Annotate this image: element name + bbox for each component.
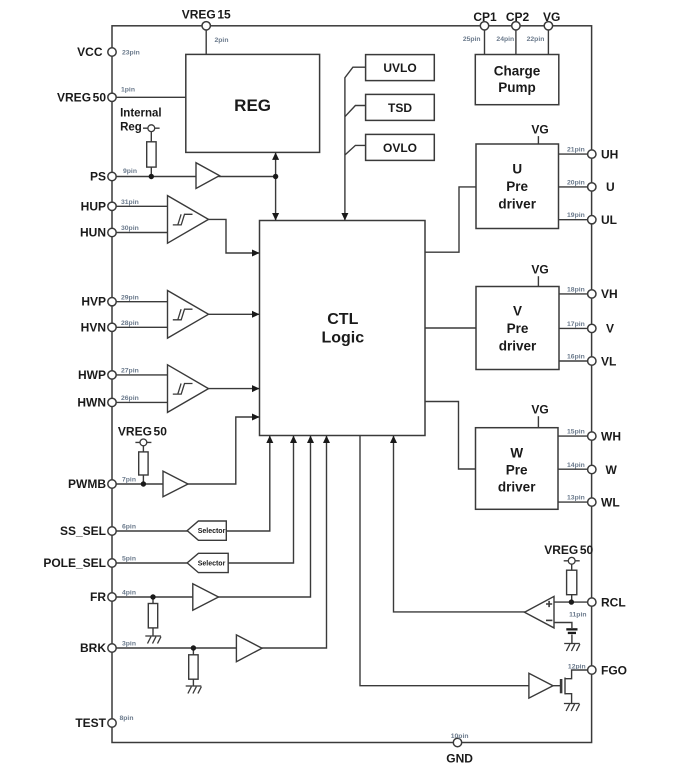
svg-text:POLE_SEL: POLE_SEL — [43, 556, 106, 570]
svg-text:VH: VH — [601, 287, 618, 301]
svg-text:19pin: 19pin — [567, 212, 585, 219]
svg-text:VCC: VCC — [77, 45, 103, 59]
svg-text:Pump: Pump — [498, 80, 536, 95]
svg-text:HUN: HUN — [80, 226, 106, 240]
svg-text:26pin: 26pin — [121, 395, 139, 402]
svg-text:FR: FR — [90, 590, 106, 604]
svg-text:BRK: BRK — [80, 641, 106, 655]
svg-text:Pre: Pre — [507, 321, 529, 336]
svg-text:Selector: Selector — [198, 528, 226, 535]
svg-text:UVLO: UVLO — [383, 61, 416, 75]
svg-text:U: U — [606, 180, 615, 194]
svg-text:VREG50: VREG50 — [118, 425, 167, 439]
svg-text:PWMB: PWMB — [68, 477, 106, 491]
svg-text:17pin: 17pin — [567, 321, 585, 328]
svg-text:driver: driver — [498, 197, 536, 212]
svg-text:Reg: Reg — [120, 122, 142, 134]
svg-text:W: W — [510, 445, 523, 460]
svg-text:HVP: HVP — [81, 295, 106, 309]
svg-text:6pin: 6pin — [122, 524, 136, 531]
svg-text:W: W — [606, 463, 618, 477]
svg-text:UL: UL — [601, 213, 617, 227]
svg-text:HUP: HUP — [81, 199, 106, 213]
svg-text:1pin: 1pin — [121, 87, 135, 94]
svg-text:VREG15: VREG15 — [182, 7, 231, 21]
svg-text:Charge: Charge — [494, 64, 541, 79]
svg-text:5pin: 5pin — [122, 556, 136, 563]
svg-text:WL: WL — [601, 495, 620, 509]
svg-text:Selector: Selector — [198, 560, 226, 567]
svg-text:23pin: 23pin — [122, 49, 140, 56]
svg-text:2pin: 2pin — [215, 37, 229, 44]
svg-text:18pin: 18pin — [567, 286, 585, 293]
svg-text:VG: VG — [543, 10, 560, 24]
svg-text:U: U — [512, 162, 522, 177]
svg-text:VREG50: VREG50 — [57, 90, 106, 104]
svg-text:31pin: 31pin — [121, 199, 139, 206]
svg-text:SS_SEL: SS_SEL — [60, 524, 106, 538]
svg-text:20pin: 20pin — [567, 179, 585, 186]
svg-text:3pin: 3pin — [122, 641, 136, 648]
svg-text:REG: REG — [234, 96, 271, 115]
svg-text:30pin: 30pin — [121, 225, 139, 232]
svg-text:CP2: CP2 — [506, 10, 530, 24]
svg-text:VG: VG — [531, 262, 548, 276]
svg-text:16pin: 16pin — [567, 354, 585, 361]
svg-text:Logic: Logic — [321, 330, 364, 347]
svg-text:14pin: 14pin — [567, 462, 585, 469]
svg-text:28pin: 28pin — [121, 320, 139, 327]
svg-text:TSD: TSD — [388, 101, 412, 115]
svg-text:HVN: HVN — [81, 320, 106, 334]
svg-text:GND: GND — [446, 752, 473, 766]
svg-text:Internal: Internal — [120, 108, 162, 120]
svg-text:Pre: Pre — [506, 179, 528, 194]
svg-text:13pin: 13pin — [567, 495, 585, 502]
svg-text:HWN: HWN — [77, 395, 106, 409]
svg-text:driver: driver — [499, 339, 537, 354]
svg-text:V: V — [513, 304, 522, 319]
svg-text:OVLO: OVLO — [383, 141, 417, 155]
svg-text:V: V — [606, 322, 614, 336]
svg-text:21pin: 21pin — [567, 147, 585, 154]
svg-text:27pin: 27pin — [121, 368, 139, 375]
svg-text:WH: WH — [601, 429, 621, 443]
svg-text:VG: VG — [531, 122, 548, 136]
svg-text:CP1: CP1 — [473, 10, 497, 24]
svg-text:11pin: 11pin — [569, 612, 586, 619]
svg-text:driver: driver — [498, 479, 536, 494]
svg-text:CTL: CTL — [327, 311, 358, 328]
svg-text:15pin: 15pin — [567, 429, 585, 436]
svg-text:7pin: 7pin — [122, 477, 136, 484]
svg-text:9pin: 9pin — [123, 168, 137, 175]
svg-text:8pin: 8pin — [120, 715, 134, 722]
svg-text:VG: VG — [531, 402, 548, 416]
svg-text:FGO: FGO — [601, 663, 627, 677]
svg-text:RCL: RCL — [601, 595, 626, 609]
svg-text:29pin: 29pin — [121, 294, 139, 301]
svg-text:VREG50: VREG50 — [544, 543, 593, 557]
svg-text:12pin: 12pin — [568, 663, 586, 670]
svg-text:10pin: 10pin — [451, 733, 469, 740]
svg-text:PS: PS — [90, 170, 106, 184]
svg-text:UH: UH — [601, 147, 618, 161]
svg-text:24pin: 24pin — [496, 36, 514, 43]
svg-text:TEST: TEST — [75, 716, 106, 730]
svg-text:HWP: HWP — [78, 368, 106, 382]
svg-text:25pin: 25pin — [463, 36, 481, 43]
svg-text:VL: VL — [601, 354, 616, 368]
svg-text:22pin: 22pin — [527, 36, 545, 43]
svg-text:Pre: Pre — [506, 462, 528, 477]
svg-text:4pin: 4pin — [122, 590, 136, 597]
